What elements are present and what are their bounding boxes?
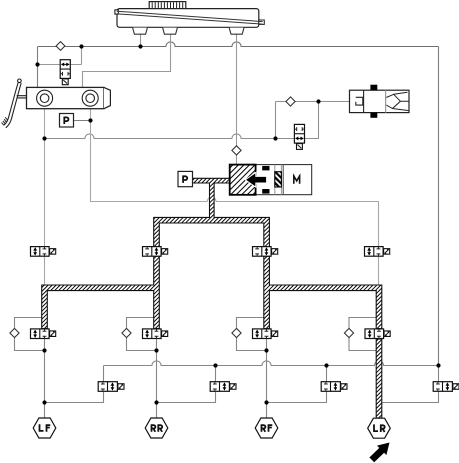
wire: dump valve outputs to wheel lines — [45, 391, 439, 402]
solenoid valve (circuit 2 isolation) — [365, 247, 390, 257]
node (90.5,120.5) — [88, 118, 92, 122]
check valve (LF bypass) — [10, 328, 19, 337]
solenoid valve (circuit 1 isolation) — [31, 247, 56, 257]
node (81.5,46.5) — [79, 44, 83, 48]
highlight arrow pointing at LR circuit — [369, 443, 389, 463]
pressure sensor P (master cylinder) — [60, 114, 74, 128]
solenoid valve (LR branch) — [365, 329, 390, 339]
wire: riser x=318.6 from valve — [305, 102, 319, 139]
node (215.5,365.5) — [213, 363, 217, 367]
wire: bypass around branch valve x=44.5 — [15, 318, 45, 351]
solenoid valve (LR dump) — [433, 382, 459, 392]
node (44.5,350.5) — [42, 348, 46, 352]
wire: pressure sensor P link — [74, 120, 91, 122]
wire: bypass valve line y=64.5 — [38, 64, 82, 66]
pressure sensor P (accumulator) — [178, 171, 193, 186]
wire: pressure switch line y=101.5 — [276, 101, 350, 103]
solenoid valve (LF branch) — [31, 329, 56, 339]
master cylinder — [27, 87, 111, 108]
brake fluid reservoir — [115, 2, 264, 35]
wire: reservoir port 1 drop — [140, 34, 142, 47]
node (156.5,350.5) — [154, 348, 158, 352]
wire: reservoir port 2 feed to master cylinder — [83, 34, 171, 87]
solenoid valve (front-right inlet) — [253, 247, 278, 257]
node (44.5,402.5) — [42, 400, 46, 404]
check valve (LR bypass) — [344, 328, 353, 337]
node (266.5,350.5) — [264, 348, 268, 352]
motor M label — [293, 176, 300, 184]
wire: master cylinder circuit 2 output x=90 then y=201.3 — [91, 109, 208, 202]
wire: reservoir port 3 pump suction line — [236, 34, 238, 165]
check valve (RF bypass) — [232, 328, 241, 337]
high pressure line: left lower bar feeding LF/RR branches — [42, 256, 160, 328]
node (438.5,365.5) — [436, 363, 440, 367]
master cylinder pushrod — [17, 96, 27, 98]
check valve (pressure switch line) — [286, 97, 295, 106]
solenoid valve (RF dump) — [321, 382, 347, 392]
high pressure line: pump output tree (P line, down pipe, upper bar, two drops) — [154, 178, 270, 246]
wheel RF — [255, 418, 278, 438]
node (44.5,138.5) — [42, 136, 46, 140]
pump arrow — [245, 173, 266, 188]
wire: dump return line y=365.2 — [104, 361, 439, 366]
high pressure line: LR wheel line (active, highlighted) — [376, 339, 382, 418]
wire: return line y=138.6 from master cylinder circuit 1 — [45, 134, 295, 139]
wire: master cylinder circuit 1 output x=44.6 — [44, 109, 46, 286]
solenoid valve (pressure switch circuit) — [294, 124, 304, 149]
wire: wheel branch column x=44.5 — [44, 339, 46, 418]
wire: reservoir supply main line y=46 with right-edge drop — [38, 42, 439, 47]
wire: bypass around branch valve x=379 — [349, 318, 379, 351]
wire: wheel branch column x=266.5 — [266, 339, 268, 418]
pressure switch / accumulator — [350, 85, 410, 118]
check valve (RR bypass) — [122, 328, 131, 337]
wire: bypass around branch valve x=266.5 — [237, 318, 267, 351]
node (140.5,46.5) — [138, 44, 142, 48]
solenoid valve (RR branch) — [143, 329, 168, 339]
wire: wheel branch column x=156.5 — [156, 339, 158, 418]
node (156.5,402.5) — [154, 400, 158, 404]
solenoid valve (RF branch) — [253, 329, 278, 339]
node (37.5,64.5) — [35, 62, 39, 66]
solenoid valve (front-left inlet) — [143, 247, 168, 257]
check valve (reservoir line) — [56, 42, 65, 51]
node (266.5,402.5) — [264, 400, 268, 404]
brake pedal — [2, 79, 22, 128]
node (318.5,101.5) — [316, 99, 320, 103]
node (326.5,365.5) — [324, 363, 328, 367]
solenoid valve (RR dump) — [210, 382, 236, 392]
wire: drop x=275 — [275, 102, 277, 139]
wheel RR — [145, 418, 168, 438]
wheel LF — [33, 418, 56, 438]
high pressure line: right lower bar feeding RF/LR branches — [264, 256, 382, 328]
wire: left riser x=37.2 into master cylinder — [37, 47, 39, 88]
wheel LR — [368, 418, 391, 438]
check valve (pump suction) — [232, 146, 241, 155]
pump/motor unit — [230, 165, 312, 195]
wire: riser x=81.4 — [81, 47, 83, 65]
solenoid valve (master cylinder bypass) — [60, 60, 70, 85]
node (275.5,138.5) — [273, 136, 277, 140]
wire: bypass around branch valve x=156.5 — [127, 318, 157, 351]
wire: dump valve stubs — [104, 366, 439, 382]
solenoid valve (LF dump) — [98, 382, 124, 392]
